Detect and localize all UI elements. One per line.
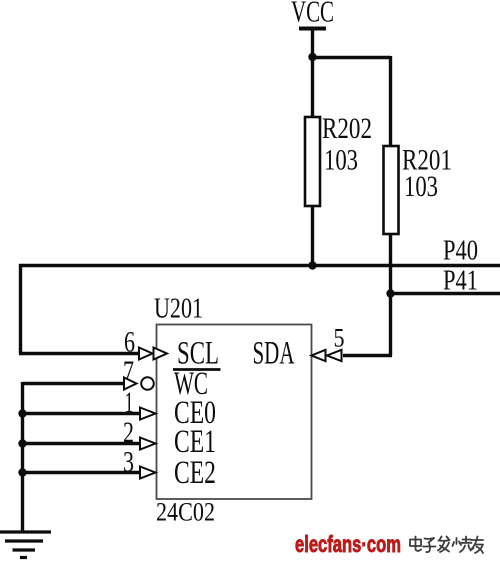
svg-text:elecfans·com: elecfans·com xyxy=(295,531,401,557)
node CE2 junction xyxy=(18,468,26,476)
VCC power symbol xyxy=(291,0,334,29)
svg-text:VCC: VCC xyxy=(291,0,334,29)
pin label WC overline xyxy=(173,368,221,371)
resistor R201 xyxy=(384,145,453,235)
svg-text:R202: R202 xyxy=(322,113,372,145)
wire pin7 WC xyxy=(23,382,126,385)
node CE0 junction xyxy=(18,409,26,417)
wire pin2 CE1 xyxy=(23,442,141,445)
pin 6 arrowheads xyxy=(139,348,167,360)
pin 1 arrowhead xyxy=(140,408,156,420)
net P40 xyxy=(19,236,500,267)
wire VCC to R201 branch horizontal xyxy=(313,56,391,59)
svg-text:24C02: 24C02 xyxy=(156,498,215,527)
pin 2 arrowhead xyxy=(140,438,156,450)
pin 7 arrowhead and inversion bubble xyxy=(124,377,154,390)
svg-text:CE2: CE2 xyxy=(174,455,216,491)
wire VCC stub xyxy=(311,29,314,118)
wire pin6 SCL xyxy=(19,352,140,355)
svg-text:103: 103 xyxy=(404,171,438,203)
wire pin1 CE0 xyxy=(23,412,141,415)
node P40 junction xyxy=(308,261,316,269)
ground xyxy=(0,532,51,558)
wire pin3 CE2 xyxy=(23,471,141,474)
svg-text:5: 5 xyxy=(334,324,345,353)
net P41 xyxy=(391,266,500,297)
svg-text:6: 6 xyxy=(124,326,135,359)
pin 5 SDA arrowheads xyxy=(312,350,342,361)
wire P40 left vertical xyxy=(19,264,22,354)
wire SDA horizontal xyxy=(343,354,392,357)
node VCC junction xyxy=(308,53,316,61)
node CE1 junction xyxy=(18,439,26,447)
node P41 junction xyxy=(386,289,394,297)
svg-text:103: 103 xyxy=(324,145,358,177)
resistor R202 xyxy=(305,113,372,206)
svg-text:U201: U201 xyxy=(154,294,203,325)
wire R201 bottom down to SDA level xyxy=(389,234,392,356)
svg-text:3: 3 xyxy=(123,446,134,479)
svg-text:1: 1 xyxy=(125,386,134,419)
op-amp U201 chip body xyxy=(154,294,312,500)
pin 3 arrowhead xyxy=(140,467,156,479)
wire ground bus vertical xyxy=(21,382,24,532)
svg-text:2: 2 xyxy=(123,416,134,449)
wire branch down to R201 xyxy=(389,56,392,146)
svg-text:P40: P40 xyxy=(443,236,478,267)
wire R202 bottom to P40 xyxy=(311,206,314,266)
svg-text:SDA: SDA xyxy=(253,336,295,372)
logo chinese 电子发烧友 xyxy=(410,537,483,554)
